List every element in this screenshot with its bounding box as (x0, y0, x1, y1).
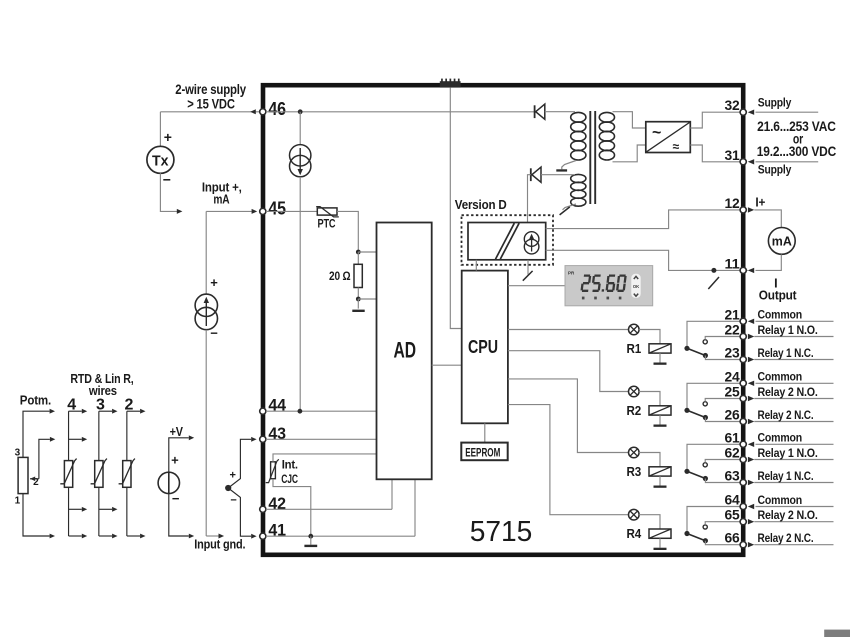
wire current source to node 44 (299, 177, 301, 411)
wire lamp to coil R4 (639, 515, 660, 529)
wire NC contact R2 (705, 418, 740, 422)
wire secondary to converter bottom (613, 145, 646, 162)
relay terminal wire at 359.5 (754, 359, 833, 361)
wire CPU to relay R1 driver (508, 329, 629, 331)
svg-text:I+: I+ (755, 196, 765, 210)
internal current source (loop supply) (290, 145, 311, 177)
terminal 23 (740, 356, 746, 362)
svg-text:−: − (210, 326, 218, 341)
input current source (195, 294, 217, 330)
page footer mark (824, 630, 850, 637)
terminal 12 (740, 207, 746, 213)
svg-text:Common: Common (758, 308, 803, 322)
wire lamp to coil R1 (639, 330, 660, 344)
lamp driver R4 (629, 509, 640, 520)
wire 45 to PTC (266, 210, 317, 212)
wire CPU to relay R2 driver (508, 351, 629, 392)
isolated output current source (524, 232, 539, 254)
svg-text:62: 62 (725, 446, 740, 461)
wire PTC to 20ohm node (337, 211, 358, 252)
svg-text:wires: wires (88, 383, 117, 398)
RTD sensor 3-wire wires (99, 409, 118, 539)
block CPU (462, 271, 508, 424)
svg-text:Relay 1 N.O.: Relay 1 N.O. (758, 323, 818, 337)
svg-text:R1: R1 (627, 341, 642, 356)
transformer primary winding (571, 112, 586, 160)
lamp driver R1 (629, 324, 640, 335)
wire isolated output to terminal 11 (546, 250, 748, 270)
svg-text:23: 23 (725, 346, 741, 361)
isolated output converter box (468, 223, 546, 260)
wire lamp to coil R3 (639, 453, 660, 467)
terminal 42 (260, 506, 266, 512)
terminal 45 (260, 208, 266, 214)
wire 44 to AD (266, 410, 377, 412)
svg-text:CPU: CPU (468, 337, 498, 357)
relay terminal wire at 321.3 (756, 320, 834, 322)
svg-text:19.2...300 VDC: 19.2...300 VDC (757, 144, 837, 159)
terminal 24 (740, 380, 746, 386)
svg-text:41: 41 (268, 521, 285, 540)
lamp driver R3 (629, 447, 640, 458)
potm top wire (23, 411, 50, 457)
wire converter to terminal 31 (690, 145, 740, 162)
svg-text:Relay 2 N.O.: Relay 2 N.O. (758, 508, 818, 522)
terminal 31 (740, 159, 746, 165)
wire NC contact R1 (705, 356, 740, 360)
output switch tick (523, 271, 533, 281)
supply wire terminal 31 (756, 161, 819, 163)
wire chassis ground to CPU (450, 88, 461, 329)
svg-text:21: 21 (725, 307, 741, 322)
svg-text:−: − (230, 494, 236, 506)
terminal 32 (740, 109, 746, 115)
switch pivot R4 (684, 531, 689, 536)
diode D1 (535, 104, 545, 119)
terminal 11 (740, 267, 746, 273)
wire D1 to primary (545, 111, 575, 113)
svg-text:CJC: CJC (281, 474, 298, 486)
wire AD to CPU (432, 364, 462, 366)
wire CPU to EEPROM (484, 423, 486, 442)
terminal 41 (260, 533, 266, 539)
relay coil R2 (649, 406, 671, 415)
ground below 20 ohm (352, 310, 364, 312)
wire common R3 (687, 444, 740, 471)
RTD sensor 4-wire (60, 459, 76, 488)
svg-text:32: 32 (725, 98, 740, 113)
wire 41 to AD (266, 535, 415, 537)
svg-text:3: 3 (15, 448, 21, 459)
svg-text:> 15 VDC: > 15 VDC (187, 96, 235, 111)
svg-text:Relay 1 N.C.: Relay 1 N.C. (758, 469, 814, 483)
switch pivot R1 (684, 346, 689, 351)
svg-text:Version D: Version D (455, 197, 507, 212)
svg-text:R2: R2 (627, 403, 642, 418)
svg-text:Relay 2 N.O.: Relay 2 N.O. (758, 385, 818, 399)
relay terminal wire at 544.7 (754, 544, 833, 546)
svg-text:OK: OK (633, 284, 639, 289)
svg-text:44: 44 (268, 396, 286, 415)
svg-text:AD: AD (394, 338, 417, 363)
svg-text:PTC: PTC (318, 218, 336, 230)
svg-text:Potm.: Potm. (20, 393, 51, 408)
svg-text:−: − (172, 491, 180, 506)
resistor 20 ohm (354, 264, 362, 287)
wire CPU to relay R4 driver (508, 405, 629, 515)
svg-text:64: 64 (725, 493, 741, 508)
wire common R1 (687, 321, 740, 348)
wire Tx return (160, 173, 177, 211)
svg-text:~: ~ (652, 125, 661, 142)
wire 46 to diode D1 (266, 111, 535, 113)
terminal 21 (740, 318, 746, 324)
wire NC contact R4 (705, 541, 740, 545)
svg-text:22: 22 (725, 323, 740, 338)
thermocouple input node (225, 437, 257, 539)
svg-text:11: 11 (725, 256, 741, 271)
primary winding tap (556, 161, 576, 172)
svg-text:25: 25 (725, 385, 741, 400)
wire D2 to aux winding (541, 174, 575, 176)
relay coil R4 (649, 529, 671, 538)
svg-text:26: 26 (725, 408, 741, 423)
aux winding switch tick (560, 207, 570, 215)
wire common R2 (687, 383, 740, 410)
svg-text:63: 63 (725, 469, 741, 484)
node 41 junction (308, 534, 313, 539)
wire 43 to AD (266, 438, 377, 440)
wire lamp to coil R2 (639, 392, 660, 406)
svg-text:EEPROM: EEPROM (465, 445, 500, 459)
svg-text:42: 42 (268, 494, 285, 513)
sensor Int. CJC (266, 459, 279, 482)
terminal 65 (740, 519, 746, 525)
svg-text:Relay 2 N.C.: Relay 2 N.C. (758, 531, 814, 545)
block AD converter (377, 223, 432, 480)
svg-text:Supply: Supply (758, 96, 792, 110)
coil ground R3 (654, 476, 667, 488)
svg-text:66: 66 (725, 531, 741, 546)
RTD sensor 2-wire wires (127, 409, 146, 539)
chassis ground symbol on top border (440, 79, 461, 88)
wire NO contact R3 (705, 460, 740, 463)
node 44 junction (298, 409, 303, 414)
terminal 26 (740, 418, 746, 424)
wire isolated box to CPU (475, 260, 477, 271)
svg-text:+V: +V (170, 425, 184, 439)
relay terminal wire at 398.5 (754, 398, 833, 400)
svg-text:20 Ω: 20 Ω (329, 269, 351, 283)
wire isolated box output stub (527, 260, 529, 275)
RTD sensor 3-wire (91, 459, 107, 488)
svg-text:R3: R3 (627, 464, 642, 479)
svg-text:Common: Common (758, 431, 803, 445)
svg-text:+: + (229, 470, 235, 482)
terminal 66 (740, 542, 746, 548)
output link switch tick (708, 277, 719, 289)
wire 42 to AD (266, 508, 392, 510)
svg-text:+: + (210, 275, 218, 290)
relay terminal wire at 521.7 (754, 521, 833, 523)
switch pivot R2 (684, 408, 689, 413)
wire down to Tx (159, 112, 161, 147)
relay terminal wire at 459.5 (754, 459, 833, 461)
svg-text:Relay 1 N.O.: Relay 1 N.O. (758, 446, 818, 460)
terminal 46 (260, 109, 266, 115)
svg-text:Input gnd.: Input gnd. (194, 537, 245, 552)
wire CPU to relay R3 driver (508, 379, 629, 453)
potm wiper wire (39, 439, 50, 479)
resistor PTC (316, 207, 339, 217)
current output loop (748, 207, 754, 212)
svg-text:1: 1 (15, 496, 21, 507)
wire NC contact R3 (705, 479, 740, 483)
switch NC contact R4 (703, 538, 708, 543)
wire NO contact R1 (705, 337, 740, 340)
display panel (565, 266, 653, 306)
wire terminal 46 to Tx (160, 111, 259, 113)
supply wire terminal 32 (756, 111, 819, 113)
main device enclosure box (263, 85, 743, 555)
relay terminal wire at 336.5 (754, 336, 833, 338)
switch NC contact R1 (703, 353, 708, 358)
terminal 44 (260, 408, 266, 414)
svg-text:≈: ≈ (673, 140, 680, 154)
switch NO contact R1 (703, 340, 707, 344)
wire CPU to display (508, 285, 565, 287)
Version D dashed box (462, 215, 554, 265)
switch NO contact R2 (703, 402, 707, 406)
switch NC contact R3 (703, 476, 708, 481)
transmitter Tx (147, 146, 174, 173)
svg-text:24: 24 (725, 369, 741, 384)
svg-text:−: − (163, 172, 171, 188)
RTD sensor 4-wire wires (69, 409, 88, 539)
relay terminal wire at 482.5 (754, 482, 833, 484)
svg-text:45: 45 (268, 198, 286, 218)
node 46 junction (298, 109, 303, 114)
wire to internal current source (299, 112, 301, 145)
svg-text:2-wire supply: 2-wire supply (175, 82, 246, 97)
relay terminal wire at 383.3 (756, 382, 834, 384)
wire node to AD (358, 251, 376, 253)
svg-text:43: 43 (268, 424, 285, 443)
wire NO contact R2 (705, 399, 740, 402)
potm bottom wire (23, 494, 50, 536)
wire CJC to AD (273, 454, 377, 462)
wire converter to terminal 32 (690, 112, 740, 128)
terminal 25 (740, 395, 746, 401)
wire common R4 (687, 507, 740, 534)
transformer secondary winding (599, 112, 614, 160)
svg-text:61: 61 (725, 430, 741, 445)
wire node to AD (358, 298, 376, 300)
display buttons (631, 274, 640, 298)
terminal 64 (740, 503, 746, 509)
switch NO contact R3 (703, 463, 707, 467)
switch pivot R3 (684, 469, 689, 474)
svg-text:mA: mA (213, 191, 230, 206)
coil ground R1 (654, 353, 667, 365)
svg-text:Int.: Int. (282, 460, 298, 472)
svg-text:46: 46 (268, 99, 286, 119)
relay coil R3 (649, 467, 671, 476)
diode D2 (531, 167, 541, 182)
svg-text:+: + (171, 452, 179, 467)
wire input gnd vertical (205, 330, 207, 536)
wire +V top (169, 438, 189, 472)
terminal 62 (740, 456, 746, 462)
svg-text:PR: PR (568, 271, 575, 276)
relay terminal wire at 421.5 (754, 421, 833, 423)
wire into terminal 45 (206, 210, 252, 212)
block EEPROM (461, 443, 507, 461)
svg-text:Common: Common (758, 370, 803, 384)
svg-text:+: + (164, 129, 172, 145)
svg-text:31: 31 (725, 148, 741, 163)
svg-text:Output: Output (759, 289, 798, 303)
switch NO contact R4 (703, 525, 707, 529)
relay terminal wire at 444.3 (756, 443, 834, 445)
svg-text:mA: mA (772, 234, 793, 249)
svg-text:Supply: Supply (758, 163, 792, 177)
relay terminal wire at 506.5 (756, 506, 834, 508)
AC/DC converter (646, 122, 691, 154)
display digits 25.60 (582, 276, 626, 292)
transformer aux winding (563, 174, 586, 209)
svg-text:Tx: Tx (152, 152, 169, 169)
wire down to input current source (205, 211, 207, 294)
svg-text:12: 12 (725, 196, 740, 211)
svg-text:Relay 1 N.C.: Relay 1 N.C. (758, 346, 814, 360)
voltage source (158, 472, 179, 493)
RTD sensor 2-wire (119, 459, 135, 488)
svg-text:R4: R4 (627, 526, 642, 541)
wire D2 to isolated output (528, 175, 531, 223)
terminal 61 (740, 441, 746, 447)
svg-text:5715: 5715 (470, 516, 533, 548)
coil ground R2 (654, 415, 667, 427)
terminal 22 (740, 333, 746, 339)
wire secondary to converter top (613, 112, 646, 128)
relay coil R1 (649, 344, 671, 353)
wire +V bottom (169, 494, 189, 536)
wire NO contact R4 (705, 522, 740, 525)
lamp driver R2 (629, 386, 640, 397)
svg-text:65: 65 (725, 508, 741, 523)
wire CJC to gnd node (273, 479, 311, 537)
coil ground R4 (654, 538, 667, 550)
transformer core (590, 111, 595, 204)
terminal 63 (740, 479, 746, 485)
wire isolated output to terminal 12 (546, 210, 740, 229)
potentiometer Potm (18, 457, 28, 493)
wire 20ohm to node B (357, 288, 359, 300)
svg-text:Common: Common (758, 493, 803, 507)
ground at node 41 (310, 536, 312, 545)
node AD input B (356, 297, 361, 302)
node AD input A (356, 250, 361, 255)
node output common junction (711, 268, 716, 273)
display indicator marks (582, 297, 621, 300)
terminal 43 (260, 436, 266, 442)
switch NC contact R2 (703, 415, 708, 420)
wire meter to terminal 11 (756, 254, 782, 270)
meter mA (768, 228, 795, 255)
svg-text:Relay 2 N.C.: Relay 2 N.C. (758, 408, 814, 422)
